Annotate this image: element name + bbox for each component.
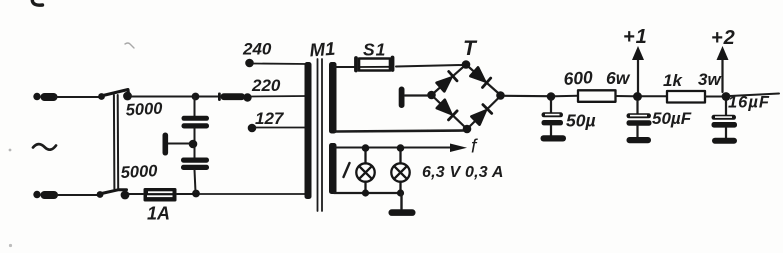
wire bottom junction to transformer xyxy=(200,193,309,195)
chassis ground bar C3 xyxy=(541,135,567,141)
switch bottom contact xyxy=(97,191,104,198)
wire junction1 to R1 xyxy=(555,95,578,97)
switch mechanical link xyxy=(113,95,116,189)
wire 220 tap to transformer xyxy=(251,95,308,98)
transformer filament winding xyxy=(329,143,337,194)
transformer M1 primary winding xyxy=(305,62,312,199)
switch bottom moving contact xyxy=(121,191,130,200)
wire fuse S1 to bridge top xyxy=(396,65,462,67)
terminal J1 (top input) xyxy=(33,93,57,101)
chassis ground bar (bridge left) xyxy=(399,87,405,109)
selector plug on 220 tap xyxy=(218,93,252,102)
wire HV secondary top to fuse S1 xyxy=(334,66,356,68)
capacitor C5 16uF xyxy=(725,101,727,115)
node bridge bottom xyxy=(463,125,472,134)
switch top blade xyxy=(103,90,129,96)
faint speck left xyxy=(9,149,12,152)
switch bottom blade xyxy=(102,190,127,194)
svg-text:S1: S1 xyxy=(363,40,386,60)
lamp mark / xyxy=(344,163,350,177)
svg-text:50µ: 50µ xyxy=(566,111,596,131)
lamp L1 xyxy=(356,151,374,192)
wire R1 to junction2 xyxy=(616,95,634,97)
diode D1 (left-top edge) xyxy=(437,72,457,92)
svg-text:600: 600 xyxy=(563,67,594,89)
svg-text:5000: 5000 xyxy=(125,100,163,120)
switch S (double pole) top contact xyxy=(98,93,105,100)
svg-text:240: 240 xyxy=(242,40,272,59)
node filter junction 1 xyxy=(547,92,556,101)
faint speck bottom-left xyxy=(9,244,12,247)
resistor R1 600 xyxy=(578,90,616,102)
svg-text:16µF: 16µF xyxy=(728,94,770,112)
wire filament bottom xyxy=(334,192,402,194)
node filter junction 2 xyxy=(633,92,642,101)
lamp L2 xyxy=(391,151,409,192)
svg-text:6w: 6w xyxy=(606,68,631,88)
chassis ground bar C5 xyxy=(712,138,737,144)
svg-text:50µF: 50µF xyxy=(652,109,692,128)
svg-text:+1: +1 xyxy=(623,26,648,48)
node bridge top xyxy=(462,60,471,69)
wire 127 tap xyxy=(255,127,308,129)
wire midpoint to chassis xyxy=(168,143,189,145)
svg-text:6,3 V 0,3 A: 6,3 V 0,3 A xyxy=(422,164,504,181)
tap 240 terminal xyxy=(245,59,254,68)
svg-text:1A: 1A xyxy=(147,204,170,224)
capacitor C2 (lower 5000) xyxy=(194,147,196,158)
diode D3 (left-bottom edge) xyxy=(437,100,457,120)
chassis ground bar (midpoint) xyxy=(163,133,169,156)
resistor R2 1k xyxy=(667,91,705,103)
wire bridge right to filter xyxy=(505,95,547,98)
terminal J2 (bottom input) xyxy=(33,191,58,199)
svg-text:3w: 3w xyxy=(698,70,722,89)
bridge rectifier T frame xyxy=(432,65,502,130)
diode D4 (bottom-right edge) xyxy=(472,105,492,125)
wire switch to top junction xyxy=(131,96,193,98)
fuse S1 xyxy=(356,58,393,71)
wire 240 tap xyxy=(253,63,308,66)
wire junction to selector plug xyxy=(199,96,219,98)
wire junction3 to output xyxy=(730,94,779,97)
svg-text:f: f xyxy=(471,137,478,158)
wire ground to bridge left xyxy=(405,94,428,96)
svg-text:1k: 1k xyxy=(663,71,683,90)
wire filament top xyxy=(335,147,452,149)
faint pencil squiggle xyxy=(125,43,134,48)
svg-text:5000: 5000 xyxy=(120,162,158,182)
svg-text:+2: +2 xyxy=(711,27,736,49)
output arrow +2 xyxy=(721,58,723,92)
wire R2 to junction3 xyxy=(705,96,722,98)
capacitor C4 50uF xyxy=(636,101,638,114)
svg-text:220: 220 xyxy=(251,76,281,95)
node bottom junction xyxy=(192,190,200,198)
wire to filament ground xyxy=(400,193,402,209)
svg-text:M1: M1 xyxy=(309,38,336,61)
node bridge right xyxy=(496,91,505,100)
node bridge left xyxy=(427,91,436,100)
capacitor C3 50u xyxy=(550,100,552,113)
stray mark top-left corner xyxy=(32,0,42,5)
wire HV secondary bottom to bridge bottom xyxy=(335,131,464,132)
svg-text:T: T xyxy=(463,37,478,60)
output arrow +1 xyxy=(637,58,639,92)
svg-text:127: 127 xyxy=(255,109,285,128)
chassis ground bar (filament) xyxy=(389,209,416,216)
transformer HV secondary winding xyxy=(329,62,337,134)
diode D2 (top-right edge) xyxy=(471,68,491,88)
node lamp2 top xyxy=(397,144,405,152)
AC source symbol ~ xyxy=(33,144,56,150)
arrow f xyxy=(450,144,467,153)
transformer core xyxy=(317,59,319,211)
node filter junction 3 xyxy=(722,92,731,101)
fuse 1A xyxy=(144,188,177,202)
wire bottom input to switch xyxy=(57,194,98,196)
node capacitor midpoint xyxy=(189,140,198,149)
wire junction2 to R2 xyxy=(642,95,667,97)
tap 127 terminal xyxy=(248,124,257,133)
wire top input to switch xyxy=(56,96,100,98)
capacitor C1 (upper 5000) xyxy=(194,97,196,117)
node lamp1 top xyxy=(362,144,370,152)
chassis ground bar C4 xyxy=(627,137,652,143)
node lamp2 bottom xyxy=(397,189,404,196)
switch top moving contact xyxy=(123,92,132,101)
node top junction xyxy=(192,93,200,101)
node lamp1 bottom xyxy=(362,189,369,196)
